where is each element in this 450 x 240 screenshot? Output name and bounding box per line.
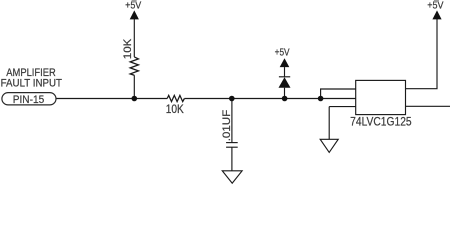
svg-text:+5V: +5V	[275, 47, 290, 58]
svg-text:FAULT INPUT: FAULT INPUT	[1, 78, 63, 90]
svg-text:10K: 10K	[166, 104, 184, 116]
svg-text:.01UF: .01UF	[221, 110, 233, 142]
svg-text:10K: 10K	[122, 38, 134, 59]
svg-text:74LVC1G125: 74LVC1G125	[350, 115, 412, 129]
svg-text:PIN-15: PIN-15	[13, 94, 45, 106]
